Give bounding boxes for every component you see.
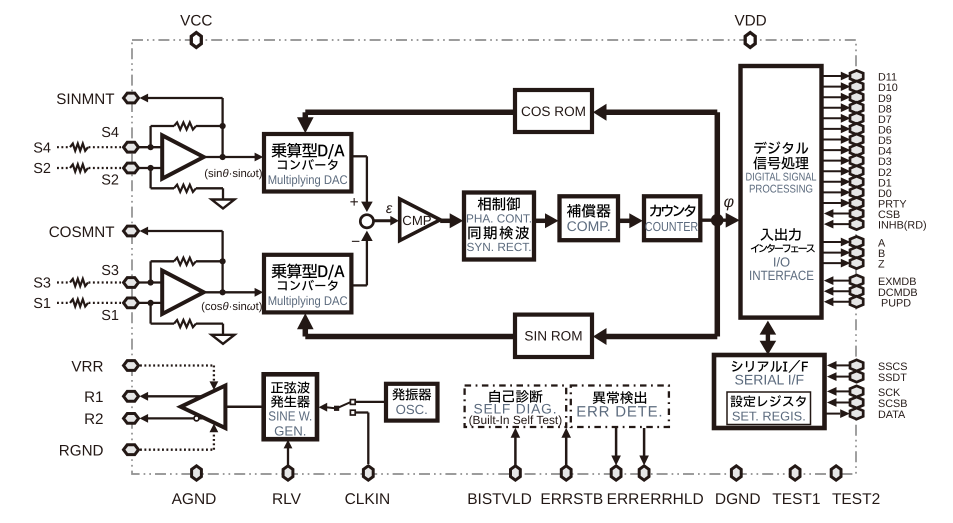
label PRTY (878, 199, 907, 211)
block: counter (644, 196, 700, 240)
pin BISTVLD (511, 466, 521, 480)
resistor: external S3 series (57, 279, 121, 286)
wire: SSCS input (827, 361, 850, 370)
wire: DATA output (825, 409, 850, 418)
pin B (850, 247, 863, 258)
node: sin feedback junction (220, 123, 226, 129)
wire: RGND dotted to driver (140, 424, 218, 450)
wire: summing node to comparator, epsilon (374, 201, 399, 226)
svg-text:INHB(RD): INHB(RD) (878, 220, 927, 232)
wire: EXMDB input (824, 276, 850, 285)
svg-text:AGND: AGND (172, 491, 217, 508)
block: SIN ROM (515, 315, 592, 357)
svg-text:(cosθ·sinωt): (cosθ·sinωt) (201, 301, 263, 313)
comparator CMP (400, 199, 441, 241)
label D7 (878, 114, 892, 126)
label plus sign (350, 194, 359, 211)
wire: D7 output (823, 114, 850, 123)
svg-text:OSC.: OSC. (396, 402, 428, 417)
svg-text:S2: S2 (33, 161, 51, 177)
label S2 (external) (33, 161, 51, 177)
label DATA (878, 409, 906, 421)
svg-text:(sinθ·sinωt): (sinθ·sinωt) (204, 168, 262, 180)
wire: driver output to R1 (140, 392, 203, 401)
label COSMNT (49, 224, 115, 241)
label SCK (878, 387, 901, 399)
svg-text:COUNTER: COUNTER (645, 219, 699, 234)
block: self diagnosis (dashed) (465, 386, 567, 428)
wire: D0 output (823, 188, 850, 197)
wire: D5 output (823, 135, 850, 144)
pin PRTY (850, 197, 863, 208)
wire: CMP to phase control (440, 213, 463, 228)
resistor: external S2 series (57, 164, 121, 171)
svg-text:VCC: VCC (180, 12, 212, 29)
wire: DSP-serial bidirectional bus (760, 321, 777, 355)
node: S2 junction (148, 165, 154, 171)
ground symbol (cos channel) (212, 335, 235, 344)
pin A (850, 236, 863, 247)
pin RGND (124, 445, 139, 455)
pin D4 (850, 145, 863, 156)
label D0 (878, 188, 892, 200)
pin TEST1 (790, 466, 800, 480)
wire: PRTY output (823, 199, 850, 208)
label D4 (878, 146, 892, 158)
wire: D10 output (823, 82, 850, 91)
pin D9 (850, 92, 863, 103)
wire: S1 input to op-amp (139, 302, 162, 304)
wire: switch to CLKIN (355, 413, 368, 465)
svg-text:ERRHLD: ERRHLD (640, 491, 704, 508)
summing junction node (360, 215, 373, 228)
block: serial I/F with setting register (714, 355, 825, 428)
wire: D3 output (823, 156, 850, 165)
label S4 (pin name) (101, 125, 119, 141)
op-amp A3 (reference driver) (181, 386, 226, 429)
svg-text:S4: S4 (33, 140, 51, 156)
node: S4 junction (148, 144, 154, 150)
op-amp A1 (sin differential amp) (162, 135, 204, 178)
svg-text:SINMNT: SINMNT (56, 91, 114, 108)
label D8 (878, 103, 892, 115)
node: phi (711, 214, 724, 227)
resistor: cos ground leg (151, 303, 223, 335)
pin SSCS (850, 360, 863, 371)
label VDD (734, 12, 766, 29)
pin S4 (124, 142, 139, 152)
node: S1 junction (148, 300, 154, 306)
wire: RLV to sine gen (284, 440, 293, 466)
wire: phase control to compensator (534, 213, 559, 228)
wire: ERRSTB to self diag (561, 428, 571, 466)
pin AGND (192, 466, 202, 480)
pin DCMDB (850, 286, 863, 297)
svg-text:GEN.: GEN. (274, 423, 306, 438)
pin D5 (850, 134, 863, 145)
pin D7 (850, 113, 863, 124)
wire: D9 output (823, 93, 850, 102)
label DCMDB (878, 287, 918, 299)
svg-text:SSDT: SSDT (878, 372, 907, 384)
resistor: sin feedback Rf (151, 122, 223, 147)
pin SINMNT (124, 93, 139, 103)
wire: D11 output (823, 72, 850, 81)
label ERR (607, 491, 640, 508)
node: S3 junction (148, 279, 154, 285)
label S1 (pin name) (101, 308, 119, 324)
label minus sign (351, 234, 360, 251)
svg-text:Multiplying DAC: Multiplying DAC (268, 173, 348, 187)
svg-text:PUPD: PUPD (881, 297, 911, 309)
block: multiplying DAC (cos) (264, 255, 351, 313)
pin DATA (850, 408, 863, 419)
resistor: sin ground leg (151, 168, 223, 200)
label S2 (pin name) (101, 173, 119, 189)
label EXMDB (878, 276, 916, 288)
pin VDD (745, 33, 755, 48)
svg-text:R1: R1 (84, 389, 103, 406)
label A (878, 238, 886, 250)
wire: S4 input to op-amp (139, 146, 162, 148)
wire: SIN ROM output to cos DAC (297, 313, 515, 336)
label VRR (71, 358, 103, 375)
label BISTVLD (467, 491, 532, 508)
wire: B output (823, 248, 850, 257)
pin D3 (850, 155, 863, 166)
pin CSB (850, 208, 863, 219)
wire: BISTVLD to self diag (511, 428, 521, 466)
svg-text:PHA. CONT.: PHA. CONT. (466, 212, 532, 226)
label D6 (878, 125, 892, 137)
wire: D1 output (823, 177, 850, 186)
svg-text:S3: S3 (33, 276, 51, 292)
chip boundary dash-dot border (132, 40, 856, 474)
svg-text:S4: S4 (101, 125, 119, 141)
switch: clock source select (319, 400, 356, 415)
wire: op-amp A2 output to cos DAC (204, 288, 264, 297)
svg-text:+: + (350, 194, 359, 211)
wire: S2 input to op-amp (139, 167, 162, 169)
label INHB(RD) (878, 220, 927, 232)
pin D11 (850, 70, 863, 81)
pin D1 (850, 176, 863, 187)
wire: D2 output (823, 167, 850, 176)
pin VRR (124, 361, 139, 371)
wire: SCK input (827, 387, 850, 396)
svg-text:DGND: DGND (715, 491, 761, 508)
svg-text:VDD: VDD (734, 12, 766, 29)
wire: VRR dotted to driver (140, 366, 218, 391)
label R2 (84, 411, 103, 428)
pin SSDT (850, 371, 863, 382)
svg-text:COS ROM: COS ROM (521, 104, 586, 119)
svg-text:ε: ε (386, 201, 393, 217)
label ERRHLD (640, 491, 704, 508)
svg-text:−: − (351, 234, 360, 251)
pin ERRHLD (639, 466, 649, 480)
svg-text:CMP: CMP (402, 213, 432, 228)
label phi (724, 194, 734, 211)
label TEST1 (772, 491, 820, 508)
pin PUPD (850, 296, 863, 307)
svg-text:RGND: RGND (59, 443, 104, 460)
svg-text:S3: S3 (101, 263, 119, 279)
label SSCS (878, 361, 907, 373)
svg-text:S1: S1 (33, 296, 51, 312)
svg-text:Multiplying DAC: Multiplying DAC (268, 294, 348, 308)
wire: phi feedback bus vertical (715, 112, 721, 336)
svg-text:ERR: ERR (607, 491, 640, 508)
label R1 (84, 389, 103, 406)
pin RLV (283, 466, 293, 480)
node: cos feedback junction (220, 258, 226, 264)
wire: COSMNT monitor line (140, 227, 223, 293)
pin SCK (850, 386, 863, 397)
pin D0 (850, 187, 863, 198)
label SCSB (878, 398, 907, 410)
svg-text:SINE W.: SINE W. (268, 408, 312, 423)
wire: INHB(RD) input (824, 220, 850, 229)
wire: err detect to ERR (611, 428, 621, 466)
label SINMNT (56, 91, 114, 108)
svg-text:RLV: RLV (272, 491, 302, 508)
pin S2 (124, 163, 139, 173)
pin DGND (731, 466, 741, 480)
pin S1 (124, 298, 139, 308)
label TEST2 (832, 491, 880, 508)
label SSDT (878, 372, 907, 384)
wire: compensator to counter (618, 213, 643, 228)
label D1 (878, 177, 892, 189)
block: COS ROM (515, 90, 592, 132)
label Z (878, 259, 885, 271)
label B (878, 248, 885, 260)
svg-text:φ: φ (724, 194, 734, 211)
label VCC (180, 12, 212, 29)
wire: sin DAC output to summing node (351, 156, 372, 212)
wire: DCMDB input (824, 287, 850, 296)
wire: err detect to ERRHLD (639, 428, 649, 466)
op-amp A2 (cos differential amp) (162, 271, 204, 314)
svg-text:Z: Z (878, 259, 885, 271)
label S3 (external) (33, 276, 51, 292)
pin S3 (124, 278, 139, 288)
svg-text:SET. REGIS.: SET. REGIS. (732, 408, 806, 423)
svg-text:COSMNT: COSMNT (49, 224, 115, 241)
label D9 (878, 93, 892, 105)
svg-text:PROCESSING: PROCESSING (749, 183, 813, 195)
wire: D6 output (823, 125, 850, 134)
label D11 (878, 72, 897, 84)
label D3 (878, 156, 892, 168)
label S1 (external) (33, 296, 51, 312)
pin COSMNT (124, 226, 139, 236)
label RGND (59, 443, 104, 460)
label D2 (878, 167, 892, 179)
wire: D8 output (823, 103, 850, 112)
ground symbol (sin channel) (212, 200, 235, 209)
wire: bus to COS ROM input (593, 104, 717, 121)
label CSB (878, 209, 900, 221)
block: oscillator OSC. (386, 384, 438, 421)
block: phase control / sync rectifier (464, 193, 534, 260)
pin VCC (191, 33, 201, 48)
svg-text:TEST2: TEST2 (832, 491, 880, 508)
svg-text:R2: R2 (84, 411, 103, 428)
block: sine wave generator (264, 374, 317, 439)
svg-text:COMP.: COMP. (567, 218, 611, 234)
resistor: cos feedback Rf (151, 258, 223, 283)
label RLV (272, 491, 302, 508)
svg-text:S2: S2 (101, 173, 119, 189)
svg-text:ERRSTB: ERRSTB (540, 491, 603, 508)
pin D2 (850, 166, 863, 177)
label CLKIN (345, 491, 391, 508)
svg-text:INTERFACE: INTERFACE (749, 268, 814, 283)
pin R2 (124, 414, 139, 424)
pin INHB(RD) (850, 219, 863, 230)
wire: bus to SIN ROM input (593, 328, 717, 345)
svg-text:S1: S1 (101, 308, 119, 324)
resistor: external S1 series (57, 299, 121, 306)
wire: S3 input to op-amp (139, 281, 162, 283)
node: sin output junction (220, 154, 226, 160)
label PUPD (881, 297, 911, 309)
wire: counter to phi node to DSP (700, 213, 739, 228)
pin D6 (850, 123, 863, 134)
pin D8 (850, 102, 863, 113)
wire: A output (823, 238, 850, 247)
svg-text:DATA: DATA (878, 409, 906, 421)
label S4 (external) (33, 140, 51, 156)
label S3 (pin name) (101, 263, 119, 279)
label ERRSTB (540, 491, 603, 508)
svg-text:SIN ROM: SIN ROM (524, 329, 582, 344)
pin D10 (850, 81, 863, 92)
block: error detection (dashed) (571, 386, 669, 428)
wire: SINMNT monitor line (140, 94, 223, 157)
wire: cos DAC output to summing node (351, 231, 372, 286)
pin R1 (124, 391, 139, 401)
wire: sine gen to driver input (225, 406, 263, 409)
label (cos-theta sin-omega-t) (201, 301, 263, 313)
block: digital signal processing / I/O interface (741, 66, 822, 318)
pin ERR (611, 466, 621, 480)
svg-text:SSCS: SSCS (878, 361, 907, 373)
wire: COS ROM output to sin DAC (297, 112, 515, 133)
svg-text:TEST1: TEST1 (772, 491, 820, 508)
pin SCSB (850, 397, 863, 408)
block: compensator COMP. (560, 196, 619, 240)
label D5 (878, 135, 892, 147)
label D10 (878, 82, 898, 94)
wire: CSB input (824, 209, 850, 218)
wire: switch to OSC (355, 401, 386, 403)
block: multiplying DAC (sin) (264, 134, 351, 192)
wire: driver output to R2 with bubble (140, 414, 206, 423)
resistor: external S4 series (57, 144, 121, 151)
node: cos output junction (220, 289, 226, 295)
svg-text:(Built-In Self Test): (Built-In Self Test) (469, 413, 563, 427)
svg-text:ERR DETE.: ERR DETE. (576, 404, 663, 421)
wire: op-amp A1 output to sin DAC (204, 153, 264, 162)
label (sin-theta sin-omega-t) (204, 168, 262, 180)
pin CLKIN (363, 466, 373, 480)
pin ERRSTB (561, 466, 571, 480)
svg-text:BISTVLD: BISTVLD (467, 491, 532, 508)
pin TEST2 (831, 466, 841, 480)
svg-text:SYN. RECT.: SYN. RECT. (467, 240, 532, 254)
svg-text:SERIAL I/F: SERIAL I/F (735, 372, 805, 388)
svg-text:VRR: VRR (71, 358, 103, 375)
svg-text:CLKIN: CLKIN (345, 491, 391, 508)
pin EXMDB (850, 275, 863, 286)
wire: D4 output (823, 146, 850, 155)
label AGND (172, 491, 217, 508)
svg-text:DIGITAL SIGNAL: DIGITAL SIGNAL (746, 171, 817, 183)
pin Z (850, 258, 863, 269)
wire: SCSB input (827, 398, 850, 407)
wire: PUPD input (824, 297, 850, 306)
wire: Z output (823, 259, 850, 268)
wire: SSDT input (827, 372, 850, 381)
label DGND (715, 491, 761, 508)
